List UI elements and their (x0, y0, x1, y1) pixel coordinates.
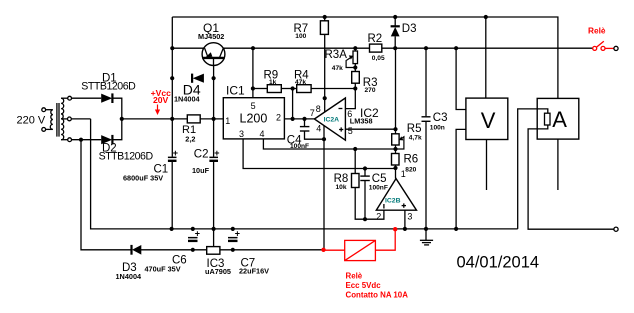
wire IC2B pin3 to ground rail (404, 210, 406, 229)
svg-text:IC2B: IC2B (385, 198, 401, 205)
wire C2 bottom lead to IC3 gnd (213, 162, 215, 247)
svg-text:4,7k: 4,7k (409, 135, 422, 142)
capacitor C6 (188, 229, 200, 243)
resistor R3 (352, 72, 360, 84)
resistor R2 (370, 44, 382, 52)
svg-text:C5: C5 (372, 173, 387, 185)
relay coil K1 (324, 229, 396, 260)
relay contact switch (593, 41, 614, 50)
diode D1 (101, 93, 112, 103)
wire R5 bottom to R6 top node (395, 145, 397, 154)
wire R3 bottom to IC2A pin6 (345, 83, 355, 108)
ammeter A (537, 98, 579, 139)
svg-text:STTB1206D: STTB1206D (99, 150, 154, 162)
svg-text:1k: 1k (269, 79, 277, 86)
node output terminal bottom (614, 227, 618, 231)
diode D3 top (391, 26, 400, 36)
wire R4 right to R3 bottom node (311, 88, 355, 90)
svg-text:47k: 47k (332, 65, 343, 72)
resistor R4 (297, 85, 311, 93)
svg-text:100n: 100n (430, 124, 445, 131)
svg-text:R6: R6 (404, 154, 419, 166)
svg-text:LM358: LM358 (350, 116, 373, 125)
svg-text:Relè: Relè (346, 272, 363, 281)
op-amp IC2B (376, 179, 416, 211)
resistor R7 (320, 21, 328, 35)
svg-text:100nF: 100nF (290, 143, 309, 150)
svg-text:270: 270 (365, 87, 376, 94)
svg-text:MJ4502: MJ4502 (198, 32, 224, 41)
svg-text:2: 2 (376, 211, 381, 221)
svg-text:+: + (235, 229, 240, 239)
svg-text:Relè: Relè (588, 25, 606, 35)
ground (420, 229, 433, 245)
svg-text:+: + (195, 229, 200, 239)
svg-text:V: V (481, 108, 496, 133)
svg-text:2,2: 2,2 (185, 135, 195, 144)
svg-text:5: 5 (251, 101, 256, 111)
capacitor C3 (422, 116, 431, 122)
wire L200 pin4 to R8 C5 R5R6 node (263, 139, 395, 149)
wire R3A top lead (354, 48, 356, 51)
wire V meter bottom stub (486, 140, 488, 191)
svg-text:STTB1206D: STTB1206D (81, 80, 136, 92)
wire D3a node down to R5 top (395, 48, 397, 134)
svg-text:D3: D3 (402, 23, 417, 35)
svg-text:C3: C3 (433, 112, 448, 124)
wire D1 cathode to output node (113, 98, 122, 119)
capacitor C5 (360, 175, 370, 181)
wire L200 pin2 to IC2A pin7 (284, 118, 314, 120)
svg-text:R8: R8 (334, 173, 349, 185)
wire R9R4 node down to pin2 line (292, 89, 294, 119)
wire C5 bottom lead (364, 181, 366, 219)
svg-text:6800uF 35V: 6800uF 35V (123, 174, 163, 183)
wire main rail rectifier to L200 pin1 (122, 118, 224, 120)
svg-text:R5: R5 (407, 123, 422, 135)
transformer T1 (42, 96, 72, 141)
svg-text:L200: L200 (240, 112, 268, 126)
svg-text:3: 3 (239, 129, 244, 139)
svg-text:4: 4 (316, 123, 321, 133)
resistor R1 (187, 115, 200, 123)
wire V meter left input (456, 48, 466, 109)
svg-text:220 V: 220 V (17, 115, 46, 127)
svg-text:820: 820 (405, 167, 416, 174)
op-amp regulator IC1 L200 (223, 98, 284, 139)
wire C4 top lead (304, 119, 306, 126)
wire D2 cathode to output node (113, 119, 122, 140)
svg-text:R3A: R3A (325, 49, 348, 61)
wire IC2A pin5 to R5 node (345, 128, 395, 130)
capacitor C7 (228, 229, 240, 243)
capacitor C2 (209, 148, 219, 162)
wire R6 bottom to IC2B pin1 apex (395, 165, 397, 179)
diode D3 bottom (132, 245, 142, 255)
svg-text:04/01/2014: 04/01/2014 (457, 254, 540, 272)
svg-text:1: 1 (225, 116, 230, 126)
wire C5 top lead (364, 169, 366, 176)
wire IC2A pin4 down to negative rail (323, 126, 325, 251)
transistor Q1 (202, 43, 225, 66)
svg-text:4: 4 (260, 129, 265, 139)
svg-text:1N4004: 1N4004 (174, 95, 201, 104)
svg-text:+: + (173, 148, 178, 158)
svg-text:3: 3 (407, 211, 412, 221)
wire A meter shunt out riser (528, 129, 616, 229)
op-amp IC2A LM358 (314, 98, 345, 140)
svg-text:100nF: 100nF (369, 184, 388, 191)
svg-text:2: 2 (276, 112, 281, 122)
wire A meter bottom stub (557, 139, 559, 190)
wire top rail +V unregulated (172, 17, 558, 98)
wire R7 bottom to IC2A pin8 (324, 34, 326, 112)
wire R8 top lead (354, 149, 356, 174)
svg-text:7: 7 (310, 108, 315, 118)
wire left vertical input node x172 (171, 17, 173, 157)
resistor R6 (392, 154, 400, 166)
wire Q1 collector line to relay contact (172, 47, 592, 49)
svg-text:R2: R2 (368, 33, 383, 45)
wire C3 bottom lead (425, 122, 427, 229)
wire R9 left lead (253, 88, 267, 90)
wire L200 pin3 to IC2B output node (243, 139, 395, 169)
wire R7 top lead (324, 17, 326, 21)
diode D4 (192, 74, 204, 83)
wire R8 bottom to IC2B pin2 (355, 188, 384, 220)
node +Vcc 20V (151, 88, 172, 115)
wire transformer secondary top to D1 (71, 97, 101, 99)
wire Q1 base / D4 / C2 vertical x213.6 (213, 58, 215, 157)
svg-text:IC1: IC1 (226, 83, 245, 97)
svg-text:47k: 47k (295, 79, 306, 86)
wire rail B D3 to red node (141, 249, 324, 251)
wire D3a anode to Q1 line (394, 36, 396, 48)
svg-text:5: 5 (348, 126, 353, 136)
svg-text:10uF: 10uF (192, 166, 210, 175)
wire C3 top lead (425, 48, 427, 116)
wire A meter shunt in riser (518, 109, 538, 229)
wire transformer center tap (71, 118, 90, 120)
wire R3A bottom to R3 top (354, 64, 356, 72)
wire ground rail A left (91, 119, 518, 229)
svg-text:Ecc 5Vdc: Ecc 5Vdc (346, 281, 382, 290)
wire V meter top lead (485, 17, 487, 98)
svg-text:0,05: 0,05 (372, 55, 385, 62)
wire V meter left return to gnd rail (456, 129, 466, 229)
wire negative rail B (81, 140, 132, 250)
diode D2 (101, 135, 112, 145)
svg-text:100: 100 (295, 33, 306, 40)
wire D3a cathode vertical (394, 17, 396, 26)
wire C1 bottom lead (171, 162, 173, 229)
regulator IC3 uA7905 (207, 247, 220, 255)
wire transformer secondary bottom to D2 (71, 139, 101, 141)
svg-text:8: 8 (316, 104, 321, 114)
svg-text:C2: C2 (194, 148, 209, 160)
svg-text:uA7905: uA7905 (205, 267, 231, 276)
wire C4 bottom to IC2A pin4 line (305, 132, 325, 140)
svg-text:IC2A: IC2A (324, 117, 340, 124)
svg-text:A: A (552, 107, 567, 132)
svg-text:1N4004: 1N4004 (116, 272, 143, 281)
svg-text:1: 1 (401, 169, 406, 179)
svg-text:Contatto NA 10A: Contatto NA 10A (346, 290, 409, 299)
resistor R8 (352, 174, 360, 188)
svg-text:20V: 20V (153, 95, 169, 105)
node output terminal top (614, 46, 618, 50)
voltmeter V (466, 98, 508, 139)
svg-text:10k: 10k (336, 184, 347, 191)
capacitor C1 (168, 148, 178, 162)
resistor R9 (267, 85, 281, 93)
svg-text:+: + (214, 148, 219, 158)
wire R9-R4 junction (281, 88, 296, 90)
trimmer R3A (346, 51, 357, 68)
svg-text:22uF16V: 22uF16V (239, 267, 269, 276)
svg-text:470uF 35V: 470uF 35V (145, 265, 181, 274)
capacitor C4 (300, 126, 310, 132)
node relay junctions red (321, 227, 397, 252)
wire L200 pin5 vertical (252, 48, 254, 97)
trimmer R5 (392, 134, 404, 149)
